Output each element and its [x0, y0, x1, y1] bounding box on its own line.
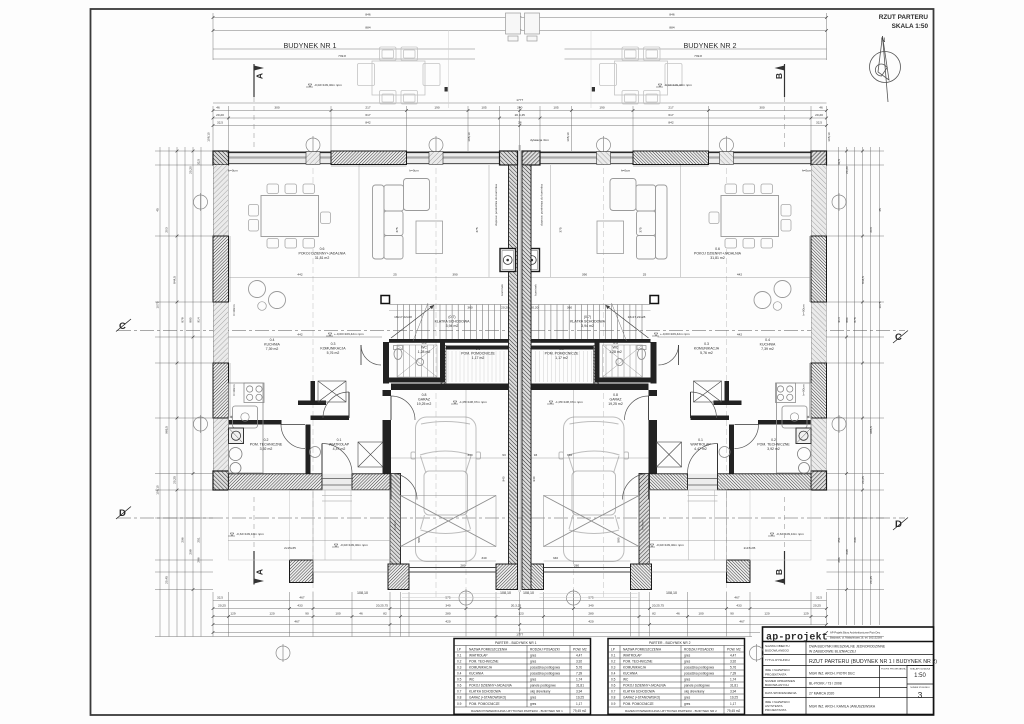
svg-text:79,45 m2: 79,45 m2 [727, 709, 741, 713]
svg-text:0.7: 0.7 [457, 690, 462, 694]
svg-text:3,94 m2: 3,94 m2 [446, 324, 459, 328]
svg-text:RZUT PARTERU (BUDYNEK NR 1 I B: RZUT PARTERU (BUDYNEK NR 1 I BUDYNEK NR … [809, 659, 937, 665]
svg-text:280: 280 [445, 612, 450, 616]
svg-text:DATA SPORZADZENIA: DATA SPORZADZENIA [765, 691, 797, 695]
svg-text:3,92: 3,92 [730, 660, 736, 664]
svg-text:NAZWA POMIESZCZENIA: NAZWA POMIESZCZENIA [469, 648, 508, 652]
entrance door [322, 444, 352, 474]
svg-text:BUDOWLANEGO: BUDOWLANEGO [765, 649, 790, 653]
svg-text:28: 28 [518, 121, 522, 125]
svg-text:0.1: 0.1 [337, 438, 342, 442]
svg-text:D: D [895, 519, 902, 530]
svg-text:0.3: 0.3 [611, 666, 616, 670]
svg-text:POKOJ DZIENNY+JADALNIA: POKOJ DZIENNY+JADALNIA [469, 684, 513, 688]
tech/wiatrolap divider [306, 425, 311, 474]
svg-text:POM. POMOCNICZE: POM. POMOCNICZE [461, 352, 495, 356]
svg-text:2x15x35: 2x15x35 [744, 546, 756, 550]
svg-text:h=90cm: h=90cm [232, 384, 236, 396]
svg-text:884: 884 [365, 26, 370, 30]
svg-text:+-0,00=109,42m npm: +-0,00=109,42m npm [660, 332, 690, 336]
svg-text:3,94: 3,94 [730, 690, 736, 694]
kitchen stove burners [247, 386, 263, 401]
circled axis markers [194, 136, 847, 662]
svg-text:360: 360 [567, 306, 572, 310]
bottom exterior wall [228, 474, 391, 490]
stairs bottom wall [389, 339, 509, 343]
svg-text:RAZEM POWIERZCHNIA UZYTKOWA PA: RAZEM POWIERZCHNIA UZYTKOWA PARTERU - BU… [471, 709, 563, 713]
svg-text:217: 217 [668, 106, 673, 110]
svg-text:NAZWA OBIEKTU: NAZWA OBIEKTU [765, 644, 790, 648]
svg-text:32,5: 32,5 [837, 159, 841, 165]
svg-text:46: 46 [216, 106, 220, 110]
svg-text:1,17: 1,17 [576, 702, 582, 706]
svg-text:842: 842 [365, 121, 370, 125]
svg-text:gres: gres [684, 654, 691, 658]
svg-text:32,5: 32,5 [217, 596, 223, 600]
svg-text:gres: gres [530, 678, 537, 682]
svg-text:25: 25 [643, 273, 647, 277]
svg-text:gres: gres [684, 696, 691, 700]
svg-text:KUCHNIA: KUCHNIA [623, 672, 638, 676]
svg-text:4,47 m2: 4,47 m2 [333, 447, 346, 451]
garage separating wall [383, 390, 392, 396]
svg-text:KUCHNIA: KUCHNIA [469, 672, 484, 676]
svg-text:108,10: 108,10 [827, 132, 831, 142]
svg-text:844,5: 844,5 [173, 276, 177, 284]
svg-text:108,10: 108,10 [467, 132, 471, 142]
construction axes [313, 150, 727, 600]
svg-text:467: 467 [299, 596, 304, 600]
svg-text:posadzka podlogowa: posadzka podlogowa [684, 672, 714, 676]
svg-text:842: 842 [668, 121, 673, 125]
svg-text:20,20: 20,20 [531, 306, 539, 310]
svg-text:375: 375 [475, 227, 479, 232]
svg-text:PROJEKTANTA: PROJEKTANTA [765, 673, 786, 677]
svg-text:posadzka podlogowa: posadzka podlogowa [684, 666, 714, 670]
svg-text:846: 846 [669, 13, 674, 17]
svg-text:TYTUL RYSUNKU: TYTUL RYSUNKU [765, 658, 790, 662]
svg-text:BUDOWLANYCH: BUDOWLANYCH [765, 683, 789, 687]
svg-text:0.9: 0.9 [457, 702, 462, 706]
svg-text:1:50: 1:50 [914, 673, 926, 679]
top wall pier at party wall [500, 151, 518, 165]
garage bottom left block [388, 564, 409, 590]
svg-text:20,3,25: 20,3,25 [511, 604, 522, 608]
svg-text:375: 375 [559, 227, 563, 232]
svg-text:32,5: 32,5 [816, 121, 822, 125]
wc toilet [394, 349, 402, 360]
svg-text:POM. POMOCNICZE: POM. POMOCNICZE [469, 702, 500, 706]
svg-text:0.8: 0.8 [457, 696, 462, 700]
svg-text:3,94: 3,94 [576, 690, 582, 694]
misc small texts [228, 169, 811, 568]
svg-text:AP-Projekt Biuro Architektoni: AP-Projekt Biuro Architektoniczne Piotr … [830, 631, 881, 635]
svg-text:kominek: kominek [534, 284, 538, 296]
svg-text:KOMUNIKACJA: KOMUNIKACJA [623, 666, 647, 670]
svg-text:0.4: 0.4 [611, 672, 616, 676]
svg-text:467: 467 [294, 620, 299, 624]
svg-text:4,47: 4,47 [576, 654, 582, 658]
svg-text:18x17,22x28: 18x17,22x28 [394, 315, 412, 319]
top wall window [331, 151, 407, 165]
svg-text:IMIE I NAZWISKO: IMIE I NAZWISKO [765, 668, 790, 672]
svg-text:1075: 1075 [878, 301, 882, 308]
svg-text:0.8: 0.8 [611, 696, 616, 700]
svg-text:B: B [774, 569, 784, 575]
svg-text:olej drewniany: olej drewniany [530, 690, 551, 694]
svg-text:GARAZ (+STANOWISKO): GARAZ (+STANOWISKO) [469, 696, 506, 700]
kitchen counter [229, 383, 265, 473]
svg-text:108,10: 108,10 [357, 591, 368, 595]
svg-text:3: 3 [519, 628, 521, 632]
svg-text:h=0cm: h=0cm [393, 520, 397, 530]
svg-text:GARAZ: GARAZ [418, 398, 431, 402]
svg-text:129: 129 [803, 612, 808, 616]
svg-text:129: 129 [230, 612, 235, 616]
car [411, 417, 481, 562]
svg-text:108,10: 108,10 [523, 591, 534, 595]
svg-text:+-0,00=109,42m npm: +-0,00=109,42m npm [334, 332, 364, 336]
svg-text:(0.7): (0.7) [448, 315, 455, 319]
armchairs [249, 281, 266, 298]
svg-text:0.8: 0.8 [613, 393, 618, 397]
entrance porch [290, 560, 314, 583]
svg-text:190: 190 [434, 106, 439, 110]
garage door [409, 567, 496, 569]
svg-text:79,45 m2: 79,45 m2 [573, 709, 587, 713]
svg-text:POKOJ DZIENNY+JADALNIA: POKOJ DZIENNY+JADALNIA [694, 252, 742, 256]
wc basin [416, 358, 423, 365]
svg-text:POM. TECHNICZNE: POM. TECHNICZNE [250, 443, 283, 447]
section line C-C [117, 331, 905, 519]
svg-text:251: 251 [837, 537, 841, 542]
svg-text:7,39 m2: 7,39 m2 [266, 347, 279, 351]
svg-text:KLATKA SCHODOWA: KLATKA SCHODOWA [469, 690, 502, 694]
svg-text:1,17: 1,17 [730, 702, 736, 706]
svg-text:KLATKA SCHODOWA: KLATKA SCHODOWA [623, 690, 656, 694]
svg-text:31,81 m2: 31,81 m2 [710, 256, 725, 260]
svg-text:0.4: 0.4 [457, 672, 462, 676]
svg-text:5,76 m2: 5,76 m2 [700, 351, 713, 355]
svg-text:375: 375 [639, 227, 643, 232]
svg-text:0.7: 0.7 [611, 690, 616, 694]
svg-text:0.8: 0.8 [422, 393, 427, 397]
svg-text:965,5: 965,5 [165, 426, 169, 434]
coffee table [416, 221, 443, 254]
bottom-left corner block [213, 471, 229, 490]
wiatrolap top wall [311, 416, 350, 421]
svg-text:0.6: 0.6 [457, 684, 462, 688]
svg-text:0.1: 0.1 [457, 654, 462, 658]
svg-text:467: 467 [734, 596, 739, 600]
svg-text:442: 442 [737, 333, 742, 337]
svg-text:20,25: 20,25 [173, 476, 177, 484]
party wall overlay building 2 (uniform hatch direction) [522, 165, 531, 590]
svg-text:5,76 m2: 5,76 m2 [327, 351, 340, 355]
stair newel post [381, 296, 390, 304]
svg-text:KOMUNIKACJA: KOMUNIKACJA [469, 666, 493, 670]
svg-text:h=0cm: h=0cm [641, 520, 645, 530]
svg-text:0.5: 0.5 [422, 341, 427, 345]
svg-text:298: 298 [845, 549, 849, 554]
svg-text:82: 82 [652, 612, 656, 616]
section markers A / B [253, 64, 255, 585]
kitchen sink [233, 406, 258, 428]
duct strip [441, 346, 446, 390]
top exterior wall [228, 152, 500, 165]
svg-text:240: 240 [517, 106, 522, 110]
svg-text:46: 46 [359, 612, 363, 616]
left wall window 2 (kitchen) [213, 363, 229, 418]
svg-text:POM. TECHNICZNE: POM. TECHNICZNE [469, 660, 499, 664]
living room boundary line [228, 336, 382, 338]
svg-text:46: 46 [676, 612, 680, 616]
svg-text:20,3,45: 20,3,45 [515, 113, 526, 117]
svg-text:105: 105 [481, 106, 486, 110]
svg-text:1,74: 1,74 [730, 678, 736, 682]
svg-text:0.3: 0.3 [331, 342, 336, 346]
door corridor-living [361, 345, 381, 365]
svg-text:7,39 m2: 7,39 m2 [761, 347, 774, 351]
svg-text:NUMER RYSUNKU: NUMER RYSUNKU [910, 687, 930, 689]
svg-text:WIATROLAP: WIATROLAP [329, 443, 350, 447]
svg-text:3,94 m2: 3,94 m2 [581, 324, 594, 328]
svg-text:GARAZ: GARAZ [609, 398, 622, 402]
svg-text:NAZWA POMIESZCZENIA: NAZWA POMIESZCZENIA [623, 648, 662, 652]
svg-text:217: 217 [365, 106, 370, 110]
svg-text:RODZAJ POSADZKI: RODZAJ POSADZKI [684, 648, 714, 652]
svg-text:846: 846 [365, 13, 370, 17]
svg-text:300: 300 [274, 106, 279, 110]
svg-text:PROJEKTANTA: PROJEKTANTA [765, 708, 786, 712]
svg-text:1,74: 1,74 [576, 678, 582, 682]
svg-text:120: 120 [269, 612, 274, 616]
wc right wall [440, 342, 445, 378]
svg-text:31,81: 31,81 [730, 684, 738, 688]
svg-text:h=90cm: h=90cm [802, 304, 806, 316]
svg-text:880: 880 [845, 317, 849, 322]
svg-text:B: B [774, 73, 784, 79]
svg-text:251: 251 [197, 537, 201, 542]
wiatrolap fixture [310, 447, 321, 458]
chimney [500, 249, 516, 272]
svg-text:(0.7): (0.7) [584, 315, 591, 319]
svg-text:90: 90 [305, 612, 309, 616]
boiler [229, 428, 244, 444]
svg-text:298: 298 [189, 549, 193, 554]
svg-text:KUCHNIA: KUCHNIA [760, 343, 776, 347]
corner sofa [373, 179, 430, 260]
wc left wall [383, 342, 389, 384]
svg-text:300: 300 [759, 106, 764, 110]
svg-text:gres: gres [530, 696, 537, 700]
svg-text:0.9: 0.9 [559, 347, 564, 351]
svg-text:PARTER - BUDYNEK NR 1: PARTER - BUDYNEK NR 1 [495, 641, 537, 645]
svg-text:27 MARCA 2020: 27 MARCA 2020 [809, 692, 834, 696]
svg-text:gres: gres [530, 654, 537, 658]
svg-text:433: 433 [736, 604, 741, 608]
svg-text:MGR INZ. ARCH. PIOTR DEC: MGR INZ. ARCH. PIOTR DEC [809, 672, 856, 676]
svg-text:3: 3 [918, 690, 923, 700]
svg-text:PARTER - BUDYNEK NR 2: PARTER - BUDYNEK NR 2 [649, 641, 691, 645]
pom pomocnicze tiles [448, 351, 504, 382]
svg-text:POKOJ DZIENNY+JADALNIA: POKOJ DZIENNY+JADALNIA [623, 684, 667, 688]
svg-text:340: 340 [553, 556, 558, 560]
svg-text:-0,32=109,10m npm: -0,32=109,10m npm [236, 532, 264, 536]
svg-text:MGR INZ. ARCH. KAMILA JANUSZEW: MGR INZ. ARCH. KAMILA JANUSZEWSKA [809, 705, 876, 709]
svg-text:KOMUNIKACJA: KOMUNIKACJA [694, 347, 720, 351]
svg-text:WC: WC [421, 346, 427, 350]
svg-text:32,5: 32,5 [816, 596, 822, 600]
svg-text:914: 914 [837, 317, 841, 322]
svg-text:0.5: 0.5 [613, 341, 618, 345]
svg-text:108,10: 108,10 [156, 485, 160, 495]
svg-text:296: 296 [181, 537, 185, 542]
svg-text:1,28 m2: 1,28 m2 [418, 350, 431, 354]
svg-text:A: A [255, 569, 265, 575]
svg-text:0.5: 0.5 [611, 678, 616, 682]
svg-text:433: 433 [297, 604, 302, 608]
svg-text:878: 878 [181, 317, 185, 322]
svg-text:20,25,75: 20,25,75 [652, 604, 664, 608]
svg-text:340: 340 [481, 556, 486, 560]
svg-text:0.5: 0.5 [457, 678, 462, 682]
svg-text:0.6: 0.6 [320, 247, 325, 251]
svg-text:KLATKA SCHODOWA: KLATKA SCHODOWA [435, 320, 470, 324]
svg-text:390: 390 [452, 273, 457, 277]
svg-text:0.6: 0.6 [611, 684, 616, 688]
room labels [250, 247, 791, 451]
svg-text:1,17 m2: 1,17 m2 [555, 356, 568, 360]
svg-text:18x17,22x28: 18x17,22x28 [628, 315, 646, 319]
svg-text:31,81 m2: 31,81 m2 [315, 256, 330, 260]
svg-text:h=0cm: h=0cm [228, 169, 238, 173]
svg-text:617: 617 [668, 113, 673, 117]
svg-text:190: 190 [599, 106, 604, 110]
svg-text:20,20: 20,20 [815, 113, 823, 117]
tech room top wall [229, 420, 282, 425]
svg-text:POKOJ DZIENNY+JADALNIA: POKOJ DZIENNY+JADALNIA [299, 252, 347, 256]
svg-text:844,5: 844,5 [861, 276, 865, 284]
building 2 mirrored geometry [521, 30, 827, 598]
building unit geometry [213, 30, 519, 598]
svg-text:32,5: 32,5 [217, 121, 223, 125]
svg-text:1777: 1777 [516, 98, 523, 102]
svg-text:doprow. powietrza do kominka: doprow. powietrza do kominka [494, 184, 498, 226]
dimension tick marks [176, 16, 864, 634]
svg-text:123: 123 [518, 612, 523, 616]
svg-text:RODZAJ POSADZKI: RODZAJ POSADZKI [530, 648, 560, 652]
svg-text:0.4: 0.4 [270, 338, 275, 342]
svg-text:108,10: 108,10 [666, 591, 677, 595]
svg-text:0.4: 0.4 [765, 338, 770, 342]
svg-text:3,92: 3,92 [576, 660, 582, 664]
svg-text:93: 93 [534, 453, 538, 457]
svg-text:32,5: 32,5 [197, 159, 201, 165]
door tech room [281, 425, 305, 449]
garage outer left wall [390, 474, 401, 573]
svg-text:286: 286 [837, 557, 841, 562]
left wall window 1 [213, 236, 229, 302]
svg-text:580: 580 [417, 537, 421, 542]
svg-text:5,76: 5,76 [730, 666, 736, 670]
interior partition kitchen T [311, 381, 316, 405]
svg-text:0.2: 0.2 [611, 660, 616, 664]
svg-text:gres: gres [530, 660, 537, 664]
svg-text:19,25 m2: 19,25 m2 [417, 402, 432, 406]
svg-text:0.9: 0.9 [476, 347, 481, 351]
svg-text:203: 203 [165, 227, 169, 232]
svg-text:-0,02=109,40m npm: -0,02=109,40m npm [664, 83, 692, 87]
svg-text:108,10: 108,10 [500, 591, 511, 595]
dimension texts [156, 13, 883, 637]
svg-text:105: 105 [553, 106, 558, 110]
svg-text:100: 100 [335, 612, 340, 616]
svg-text:45: 45 [878, 208, 882, 212]
svg-text:h=0cm: h=0cm [409, 169, 419, 173]
garage side door [391, 474, 417, 500]
top wall pier blocks [306, 152, 320, 165]
svg-text:WIATROLAP: WIATROLAP [690, 443, 711, 447]
svg-text:420: 420 [588, 620, 593, 624]
room schedule table building 2 [608, 639, 745, 715]
svg-text:0.6: 0.6 [715, 247, 720, 251]
svg-text:WC: WC [613, 346, 619, 350]
svg-text:1,17 m2: 1,17 m2 [472, 356, 485, 360]
svg-text:878: 878 [853, 317, 857, 322]
svg-text:940: 940 [532, 476, 536, 481]
svg-text:doprow. powietrza do kominka: doprow. powietrza do kominka [540, 184, 544, 226]
svg-text:7,39: 7,39 [730, 672, 736, 676]
svg-text:DWA BUDYNKI MIESZKALNE JEDNORO: DWA BUDYNKI MIESZKALNE JEDNORODZINNE [809, 645, 886, 649]
door X symbols [318, 345, 437, 467]
svg-text:posadzka podlogowa: posadzka podlogowa [530, 666, 560, 670]
top wall corner block [213, 151, 229, 165]
svg-text:-0,32=109,10m npm: -0,32=109,10m npm [776, 532, 804, 536]
svg-text:390: 390 [582, 273, 587, 277]
svg-text:31,81: 31,81 [576, 684, 584, 688]
stair flight over wc [398, 345, 434, 377]
svg-text:467: 467 [739, 620, 744, 624]
svg-text:POW. M2: POW. M2 [727, 648, 741, 652]
svg-text:19,25 m2: 19,25 m2 [608, 402, 623, 406]
svg-text:olej drewniany: olej drewniany [684, 690, 705, 694]
svg-text:280: 280 [574, 564, 579, 568]
party wall [509, 165, 518, 590]
svg-text:WIATROLAP: WIATROLAP [623, 654, 642, 658]
svg-text:SKALA 1:50: SKALA 1:50 [892, 23, 929, 30]
svg-text:20,25: 20,25 [813, 604, 821, 608]
svg-text:20,20: 20,20 [216, 113, 224, 117]
stair treads [390, 305, 509, 340]
svg-text:PODPIS PROJEKTANTA: PODPIS PROJEKTANTA [881, 668, 906, 671]
svg-text:442: 442 [737, 273, 742, 277]
svg-text:20,45: 20,45 [869, 576, 873, 584]
room schedule table building 1 [454, 639, 591, 715]
svg-text:WC: WC [469, 678, 475, 682]
svg-text:POM. POMOCNICZE: POM. POMOCNICZE [545, 352, 579, 356]
svg-text:h=0cm: h=0cm [621, 169, 631, 173]
svg-text:108,10: 108,10 [207, 132, 211, 142]
drawing title top right [879, 14, 929, 30]
svg-text:19,25: 19,25 [730, 696, 738, 700]
svg-text:203: 203 [869, 227, 873, 232]
svg-text:965,5: 965,5 [869, 426, 873, 434]
svg-text:5,76: 5,76 [576, 666, 582, 670]
svg-text:884: 884 [669, 26, 674, 30]
stair direction line [391, 305, 434, 338]
svg-text:gres: gres [684, 660, 691, 664]
